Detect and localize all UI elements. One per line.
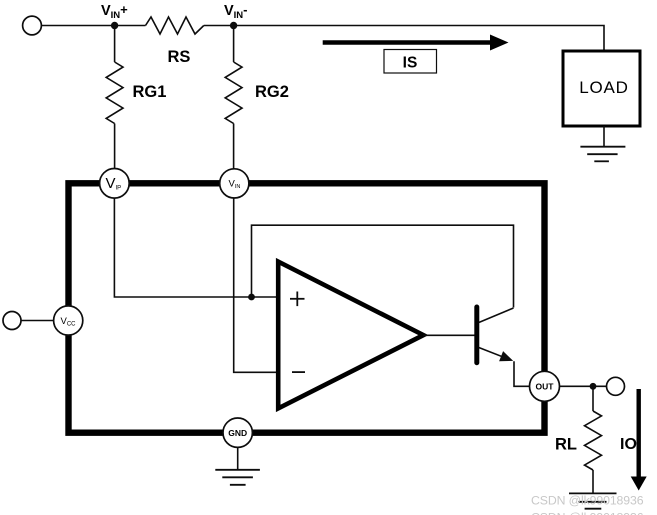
wire feedback (node A up over op-amp to Q1 collector) — [252, 225, 514, 307]
svg-text:RL: RL — [555, 436, 577, 454]
svg-text:RS: RS — [168, 48, 191, 66]
load box LOAD — [563, 51, 640, 126]
transistor Q1 — [477, 307, 514, 363]
wire VIN+ to RS — [115, 25, 146, 27]
IC boundary box — [69, 183, 545, 432]
pin OUT — [530, 371, 560, 401]
terminal T1 (top-left input) — [23, 16, 42, 35]
svg-text:GND: GND — [228, 428, 247, 438]
ground (below LOAD) — [580, 126, 625, 161]
wire T1 to VIN+ — [41, 25, 114, 27]
wire op-amp output to Q1 base — [423, 334, 474, 336]
terminal T3 (output) — [607, 377, 625, 395]
svg-text:RG1: RG1 — [133, 83, 167, 101]
node VIN+ — [101, 2, 128, 29]
wire emitter to OUT — [514, 361, 529, 386]
watermark — [531, 494, 644, 515]
wire VIN to op-amp - input — [234, 198, 279, 372]
terminal T2 (VCC supply) — [3, 312, 54, 330]
resistor RG2 — [225, 26, 289, 170]
pin VIP — [100, 169, 130, 199]
current arrow IS — [323, 35, 509, 74]
svg-text:IO: IO — [620, 436, 637, 453]
resistor RS — [146, 17, 204, 66]
svg-text:IS: IS — [403, 54, 418, 71]
pin GND — [223, 418, 252, 447]
op-amp U1 — [278, 262, 423, 409]
node A (feedback junction) — [248, 294, 255, 301]
ground (below RL) — [569, 493, 617, 508]
svg-text:RG2: RG2 — [255, 83, 289, 101]
current arrow IO — [620, 389, 647, 491]
node B (output junction) — [590, 383, 597, 390]
svg-text:LOAD: LOAD — [579, 78, 629, 97]
wire VIP to op-amp + input — [114, 198, 278, 297]
svg-text:CSDN @lk99018936: CSDN @lk99018936 — [531, 494, 644, 508]
ground (below GND) — [215, 447, 260, 484]
svg-text:CSDN @lk99018936: CSDN @lk99018936 — [531, 511, 644, 515]
node VIN- — [224, 2, 248, 29]
wire VIN- to LOAD — [234, 26, 604, 52]
resistor RL — [555, 386, 602, 493]
wire OUT to terminal T3 — [560, 385, 607, 387]
pin VCC — [54, 306, 83, 335]
resistor RG1 — [106, 26, 166, 170]
svg-text:OUT: OUT — [536, 381, 555, 391]
pin VIN — [220, 169, 249, 198]
wire RS to VIN- — [204, 25, 234, 27]
